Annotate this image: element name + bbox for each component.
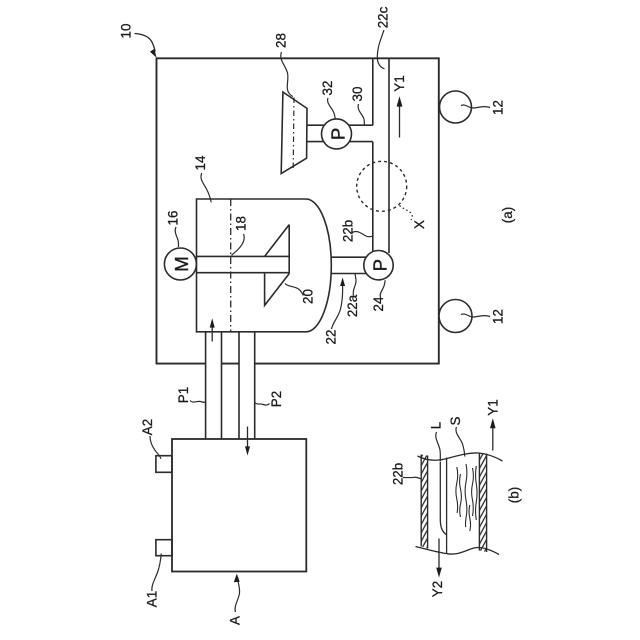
- pipe 22a tank to pump 24: [331, 257, 368, 273]
- svg-text:22b: 22b: [391, 463, 406, 485]
- svg-text:22a: 22a: [345, 294, 360, 317]
- riser pipe 22c / 22b: [373, 58, 389, 253]
- leader 12 lower: [461, 314, 490, 317]
- label P2: [269, 391, 284, 407]
- svg-text:P2: P2: [269, 391, 284, 407]
- tank 14: [197, 199, 332, 332]
- hopper center line (dash-dot): [292, 98, 295, 169]
- svg-text:X: X: [412, 220, 427, 229]
- leader 30: [358, 104, 364, 125]
- svg-text:Y2: Y2: [430, 581, 445, 597]
- leader P2: [255, 403, 269, 405]
- tab A1: [156, 540, 172, 556]
- leader S: [456, 427, 465, 457]
- inner boundary line: [446, 458, 448, 554]
- label 18: [233, 216, 248, 231]
- stirrer blade 20: [265, 225, 290, 306]
- leader A2: [150, 436, 161, 459]
- leader 22a: [353, 274, 356, 296]
- shaft of stirrer: [197, 256, 289, 272]
- label 24: [371, 296, 386, 311]
- label Y1 top: [392, 75, 407, 91]
- svg-text:14: 14: [193, 155, 208, 170]
- label L: [428, 422, 443, 429]
- label 30: [350, 87, 365, 102]
- svg-text:L: L: [428, 422, 443, 429]
- leader 22b riser: [353, 231, 373, 236]
- return pipe P2: [239, 333, 255, 439]
- svg-text:P: P: [369, 259, 390, 271]
- label (b): [506, 487, 521, 503]
- svg-text:12: 12: [490, 100, 505, 115]
- svg-text:M: M: [171, 256, 192, 271]
- arrow Y1 section: [490, 418, 496, 450]
- label 22b (section): [391, 463, 406, 485]
- svg-text:Y1: Y1: [485, 399, 500, 415]
- label S: [448, 416, 463, 425]
- svg-text:A: A: [228, 616, 243, 625]
- flow arrow Y1 in enclosure: [397, 96, 403, 137]
- svg-text:S: S: [448, 416, 463, 425]
- label 32: [320, 81, 335, 96]
- arrow Y2 section: [436, 539, 442, 578]
- label 20: [301, 289, 316, 304]
- svg-text:A1: A1: [144, 591, 159, 607]
- label 12 upper: [490, 100, 505, 115]
- leader 32: [328, 98, 336, 119]
- label 14: [193, 155, 208, 170]
- pipe hopper to pump 32: [307, 125, 325, 141]
- svg-text:16: 16: [166, 211, 181, 226]
- leader arrow for 10: [135, 34, 157, 58]
- svg-text:12: 12: [490, 309, 505, 324]
- leader 18: [232, 234, 245, 255]
- svg-text:20: 20: [301, 289, 316, 304]
- label Y2 section: [430, 581, 445, 597]
- enclosure box 10: [157, 58, 439, 363]
- leader 20: [285, 284, 303, 296]
- leader L: [436, 432, 441, 461]
- label 22a: [345, 294, 360, 317]
- dashed region circle X: [357, 161, 407, 211]
- pump circle 24: [364, 251, 393, 280]
- label 22 with arrow: [324, 330, 339, 345]
- leader arrow A: [234, 574, 240, 612]
- left wall of pipe 22b (hatched): [421, 455, 427, 549]
- tab A2: [156, 456, 172, 473]
- roller circle 12 lower: [439, 300, 472, 333]
- leader 12 upper: [461, 105, 490, 108]
- leader 28: [281, 52, 293, 97]
- box A: [172, 439, 306, 572]
- leader A1: [152, 554, 161, 592]
- hopper 28: [281, 92, 307, 174]
- dotted leader X: [400, 206, 413, 221]
- label A2: [140, 419, 155, 435]
- svg-text:22b: 22b: [340, 220, 355, 242]
- svg-text:A2: A2: [140, 419, 155, 435]
- pipe 30 pump to riser: [348, 125, 373, 141]
- svg-text:24: 24: [371, 296, 386, 311]
- center line 18 (dash-dot): [230, 199, 232, 332]
- flow arrow up in P1: [210, 318, 215, 341]
- svg-text:(b): (b): [506, 487, 521, 503]
- svg-text:32: 32: [320, 81, 335, 96]
- label A with arrow: [228, 616, 243, 625]
- label A1: [144, 591, 159, 607]
- label 28: [274, 33, 289, 48]
- supply pipe P1: [206, 333, 222, 439]
- label 22b (riser): [340, 220, 355, 242]
- svg-text:22c: 22c: [375, 6, 390, 28]
- label 22c: [375, 6, 390, 28]
- leader P1: [190, 401, 205, 403]
- svg-text:30: 30: [350, 87, 365, 102]
- right wall of pipe 22b (hatched): [479, 453, 486, 553]
- label X: [412, 220, 427, 229]
- leader 22c: [377, 30, 384, 69]
- label 10: [118, 24, 133, 39]
- top break line: [418, 453, 503, 461]
- flow arrow down in P2: [245, 427, 250, 456]
- roller circle 12 upper: [440, 91, 472, 123]
- svg-text:22: 22: [324, 330, 339, 345]
- label 16: [166, 211, 181, 226]
- bottom break line: [416, 547, 500, 555]
- svg-text:Y1: Y1: [392, 75, 407, 91]
- liquid film line L: [440, 462, 446, 536]
- svg-text:P1: P1: [176, 387, 191, 403]
- label P1: [176, 387, 191, 403]
- label 12 lower: [490, 309, 505, 324]
- leader 14: [201, 173, 211, 202]
- svg-text:10: 10: [118, 24, 133, 39]
- leader 16: [175, 227, 178, 247]
- svg-text:P: P: [327, 128, 348, 140]
- pump circle 32: [322, 119, 352, 149]
- leader 24: [380, 280, 385, 297]
- svg-text:28: 28: [274, 33, 289, 48]
- leader 22b section: [403, 477, 421, 479]
- label Y1 section: [485, 399, 500, 415]
- leader 22 arrow: [332, 278, 346, 330]
- svg-text:18: 18: [233, 216, 248, 231]
- svg-text:(a): (a): [500, 207, 515, 223]
- label (a): [500, 207, 515, 223]
- motor circle M 16: [164, 248, 196, 280]
- vapor flow squiggles S: [456, 464, 477, 531]
